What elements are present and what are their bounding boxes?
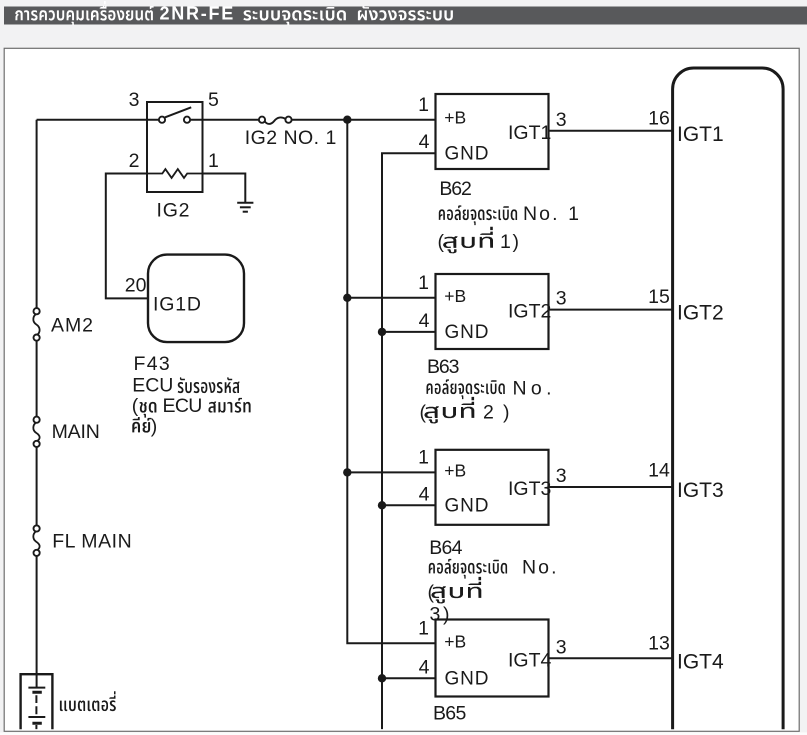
wire relay pin2 to IG1D pin20 (106, 174, 148, 299)
ignition coil B62 box (436, 94, 549, 169)
svg-text:3): 3) (430, 604, 450, 626)
svg-text:2: 2 (483, 401, 494, 423)
svg-text:3: 3 (556, 288, 567, 310)
relay IG2 contact pin3 (159, 117, 165, 123)
wire relay contact stubs (147, 119, 203, 121)
svg-text:20: 20 (125, 275, 147, 297)
svg-text:4: 4 (419, 310, 430, 332)
svg-text:3: 3 (129, 89, 140, 111)
coil B64 thai label (429, 559, 507, 579)
svg-text:ECU: ECU (163, 395, 203, 417)
junction node GND bus / B64 (378, 501, 386, 509)
wire relay pin5 to fuse IG2 NO.1 (187, 119, 259, 121)
B63 thai cylinder label (425, 397, 475, 424)
ignition coil B64 box (436, 450, 549, 525)
header title bar (4, 7, 807, 25)
svg-text:IGT4: IGT4 (677, 650, 724, 673)
F43 label thai (smart) (208, 398, 250, 413)
svg-text:+B: +B (444, 460, 466, 480)
wire IGT4 B65 to ECU pin13 (549, 657, 673, 659)
wire GND bus vertical (382, 153, 436, 729)
B64 thai cylinder label (432, 577, 482, 604)
wire GND bus to B64 (382, 504, 436, 506)
junction node +B bus top (343, 116, 351, 124)
wire +B bus to B63 (347, 297, 435, 299)
svg-text:(: ( (438, 231, 445, 253)
svg-text:4: 4 (419, 484, 430, 506)
junction node GND bus / B63 (378, 328, 386, 336)
svg-text:+B: +B (444, 631, 466, 651)
battery label (60, 691, 116, 711)
svg-text:IGT2: IGT2 (677, 302, 724, 325)
svg-text:No.: No. (513, 378, 552, 400)
relay IG2 coil (zigzag) (147, 169, 203, 178)
svg-text:No.: No. (522, 557, 557, 579)
wire +B bus vertical (347, 120, 435, 644)
svg-text:3: 3 (556, 636, 567, 658)
ECU F43 IG1D box (148, 255, 244, 343)
B62 thai cylinder label (443, 227, 493, 254)
wire left bus vertical (battery feed) (37, 120, 147, 688)
svg-text:IGT3: IGT3 (677, 479, 724, 502)
fuse IG2 NO.1 element (265, 117, 286, 123)
svg-text:IGT1: IGT1 (677, 123, 724, 146)
svg-text:3: 3 (556, 109, 567, 131)
relay IG2 box (147, 102, 203, 192)
junction node GND bus / B65 (378, 674, 386, 682)
ignition coil B63 box (436, 274, 549, 349)
fuse FL MAIN (33, 531, 39, 550)
relay IG2 switch blade (165, 107, 191, 117)
battery plates (28, 688, 45, 730)
svg-text:16: 16 (648, 108, 670, 130)
svg-text:F43: F43 (134, 353, 170, 375)
fuse MAIN (33, 422, 39, 441)
svg-text:2: 2 (129, 150, 140, 172)
coil B63 thai label (427, 379, 505, 399)
svg-text:14: 14 (648, 460, 670, 482)
battery box (21, 674, 53, 735)
wire GND bus to B65 (382, 677, 436, 679)
svg-text:): ) (503, 401, 510, 423)
ground (relay pin 1) (237, 203, 253, 212)
relay IG2 contact pin5 (184, 117, 190, 123)
svg-text:): ) (513, 231, 520, 253)
svg-text:2NR-FE: 2NR-FE (160, 3, 234, 23)
header thai title 3 (358, 6, 453, 21)
svg-text:ECU: ECU (132, 375, 173, 397)
svg-text:4: 4 (419, 657, 430, 679)
svg-text:15: 15 (648, 286, 670, 308)
ignition coil B65 box (436, 620, 549, 697)
wire +B bus to B64 (347, 471, 435, 473)
svg-text:IGT1: IGT1 (508, 122, 551, 144)
svg-text:B65: B65 (433, 703, 466, 725)
svg-text:IGT4: IGT4 (508, 649, 551, 671)
svg-text:B62: B62 (439, 178, 472, 200)
svg-text:MAIN: MAIN (52, 421, 100, 443)
svg-text:No.: No. (523, 203, 558, 225)
wire IGT1 B62 to ECU pin16 (549, 130, 673, 132)
svg-text:): ) (151, 416, 158, 438)
svg-text:GND: GND (445, 144, 489, 165)
F43 label thai (key) (132, 417, 151, 433)
svg-text:IGT3: IGT3 (508, 478, 551, 500)
svg-text:+B: +B (444, 286, 466, 306)
F43 label thai (certification) (178, 377, 240, 393)
svg-text:13: 13 (648, 633, 670, 655)
svg-text:1: 1 (418, 447, 429, 469)
svg-text:(: ( (420, 401, 427, 423)
wire fuse to +B bus and coil B62 (291, 119, 435, 121)
svg-text:+B: +B (444, 108, 466, 128)
svg-text:IGT2: IGT2 (508, 301, 551, 323)
svg-text:GND: GND (445, 496, 489, 517)
header thai title 1 (15, 1, 153, 25)
junction node +B bus / B64 (343, 468, 351, 476)
header thai title 2 (243, 7, 346, 25)
svg-text:FL MAIN: FL MAIN (52, 531, 132, 553)
svg-text:B64: B64 (429, 537, 462, 559)
svg-text:B63: B63 (427, 356, 460, 378)
svg-text:GND: GND (445, 669, 489, 690)
svg-text:(: ( (132, 395, 139, 417)
junction node +B bus / B63 (343, 294, 351, 302)
svg-text:3: 3 (556, 465, 567, 487)
wire IGT2 B63 to ECU pin15 (549, 309, 673, 311)
wire IGT3 B64 to ECU pin14 (549, 486, 673, 488)
svg-text:GND: GND (445, 322, 489, 343)
svg-text:IG2: IG2 (157, 200, 190, 222)
svg-text:1: 1 (208, 150, 219, 172)
wire relay pin3 to left bus (147, 119, 162, 121)
svg-text:4: 4 (419, 131, 430, 153)
svg-text:1: 1 (418, 94, 429, 116)
fuse AM2 (33, 314, 39, 335)
svg-text:1: 1 (418, 618, 429, 640)
F43 label thai (chud) (140, 402, 157, 418)
svg-text:1: 1 (568, 203, 579, 225)
svg-text:AM2: AM2 (51, 315, 93, 337)
wire relay pin1 to ground (203, 174, 246, 203)
ECU engine control module connector (673, 68, 784, 735)
svg-text:5: 5 (208, 89, 219, 111)
svg-text:IG1D: IG1D (153, 294, 201, 316)
bottom strip below panel (0, 732, 807, 735)
wire GND bus to B63 (382, 331, 436, 333)
coil B62 thai label (439, 205, 517, 225)
svg-text:IG2 NO. 1: IG2 NO. 1 (245, 127, 336, 149)
svg-text:1: 1 (500, 231, 511, 253)
svg-text:1: 1 (418, 272, 429, 294)
